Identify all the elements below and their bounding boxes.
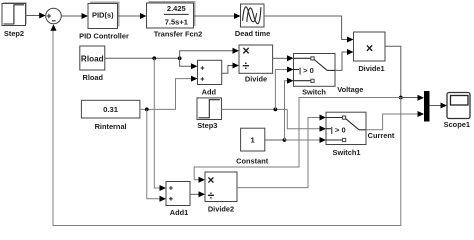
constant block Rinternal 0.31	[81, 100, 139, 131]
svg-text:Divide: Divide	[245, 75, 267, 84]
svg-text:Transfer Fcn2: Transfer Fcn2	[154, 29, 202, 38]
wire Divide1 output down to voltage node	[385, 46, 401, 97]
svg-text:×: ×	[242, 44, 249, 58]
wire Step2 to Sum	[26, 13, 46, 19]
svg-text:÷: ÷	[208, 188, 215, 202]
wire Dead time to Divide1 input 1	[264, 16, 354, 43]
sum block Add1	[166, 182, 190, 218]
wire voltage to Mux input 1	[401, 95, 424, 101]
step source Step2	[2, 2, 27, 38]
switch block Switch	[294, 54, 336, 97]
svg-text:Step2: Step2	[4, 29, 24, 38]
wire Add output to Divide divisor input	[222, 63, 239, 74]
wire Constant branch to Switch1 input 3	[285, 137, 327, 143]
wire Rload junction down to Add1 input 1	[154, 58, 166, 191]
svg-text:PID Controller: PID Controller	[79, 32, 129, 41]
svg-text:Rload: Rload	[81, 54, 104, 63]
svg-text:Scope1: Scope1	[444, 120, 470, 129]
svg-text:Constant: Constant	[236, 157, 269, 166]
wire voltage to Divide2 numerator	[194, 98, 401, 183]
svg-text:Switch1: Switch1	[333, 148, 361, 157]
wire Constant output to Switch input 3	[265, 78, 294, 142]
svg-text:Add: Add	[202, 88, 217, 97]
switch block Switch1	[326, 112, 366, 157]
wire Rinternal junction down to Add1 input 2	[147, 109, 166, 201]
wire Add1 output to Divide2 divisor	[190, 191, 205, 197]
label Current	[368, 131, 395, 140]
wire Rinternal output to Add input 2	[140, 76, 198, 112]
svg-text:1: 1	[251, 136, 256, 145]
svg-text:Step3: Step3	[197, 121, 217, 130]
wire Divide2 output to Switch1 input 1	[237, 115, 326, 188]
svg-text:2.425: 2.425	[167, 4, 186, 13]
divide block Divide	[239, 44, 273, 84]
svg-text:Rload: Rload	[83, 73, 104, 82]
transport delay Dead time	[235, 4, 270, 38]
wire Sum to PID	[61, 13, 88, 19]
wire Switch output to Divide1 input 2	[335, 49, 354, 70]
svg-text:Switch: Switch	[302, 87, 326, 96]
scope block Scope1	[444, 93, 470, 130]
wire Step3 branch to Switch1 control input	[287, 109, 326, 131]
sum block Add	[198, 60, 222, 96]
svg-text:÷: ÷	[242, 59, 249, 73]
svg-text:Divide2: Divide2	[208, 205, 234, 214]
svg-text:0.31: 0.31	[103, 105, 119, 114]
svg-text:Current: Current	[368, 131, 395, 140]
wire Transfer Fcn2 to Dead time	[194, 13, 241, 19]
wire PID to Transfer Fcn2	[118, 13, 147, 19]
sum junction	[46, 8, 62, 24]
divide block Divide2	[205, 172, 237, 214]
wire Mux to Scope1	[430, 103, 448, 109]
wire Step3 output to Switch input 2	[222, 67, 294, 112]
svg-text:Rinternal: Rinternal	[95, 122, 127, 131]
step source Step3	[197, 98, 222, 130]
constant block Constant	[236, 128, 269, 165]
wire Switch1 output to Mux input 2	[366, 111, 424, 130]
wire voltage feedback to sum	[51, 24, 401, 225]
svg-text:Divide1: Divide1	[358, 64, 384, 73]
wire Rload output with junctions	[105, 56, 182, 60]
svg-text:PID(s): PID(s)	[92, 10, 114, 19]
svg-text:7.5s+1: 7.5s+1	[165, 17, 188, 26]
PID controller block PID Controller	[79, 2, 129, 41]
constant block Rload	[80, 46, 105, 82]
mux Mux	[424, 91, 430, 122]
product block Divide1	[354, 32, 386, 73]
wire Divide output to Switch input 1	[273, 55, 294, 61]
svg-text:| > 0: | > 0	[299, 66, 314, 75]
transfer function Transfer Fcn2	[147, 1, 203, 38]
svg-text:×: ×	[366, 41, 373, 55]
node Voltage junction	[399, 96, 403, 100]
label Voltage	[337, 85, 363, 94]
svg-text:×: ×	[207, 173, 214, 187]
svg-text:Dead time: Dead time	[235, 29, 270, 38]
wire Rload branch down to Add input 1	[180, 58, 198, 69]
svg-text:| > 0: | > 0	[331, 125, 346, 134]
svg-text:Add1: Add1	[170, 208, 188, 217]
wire Rload branch up to Divide x input	[180, 48, 239, 59]
svg-text:Voltage: Voltage	[337, 85, 363, 94]
